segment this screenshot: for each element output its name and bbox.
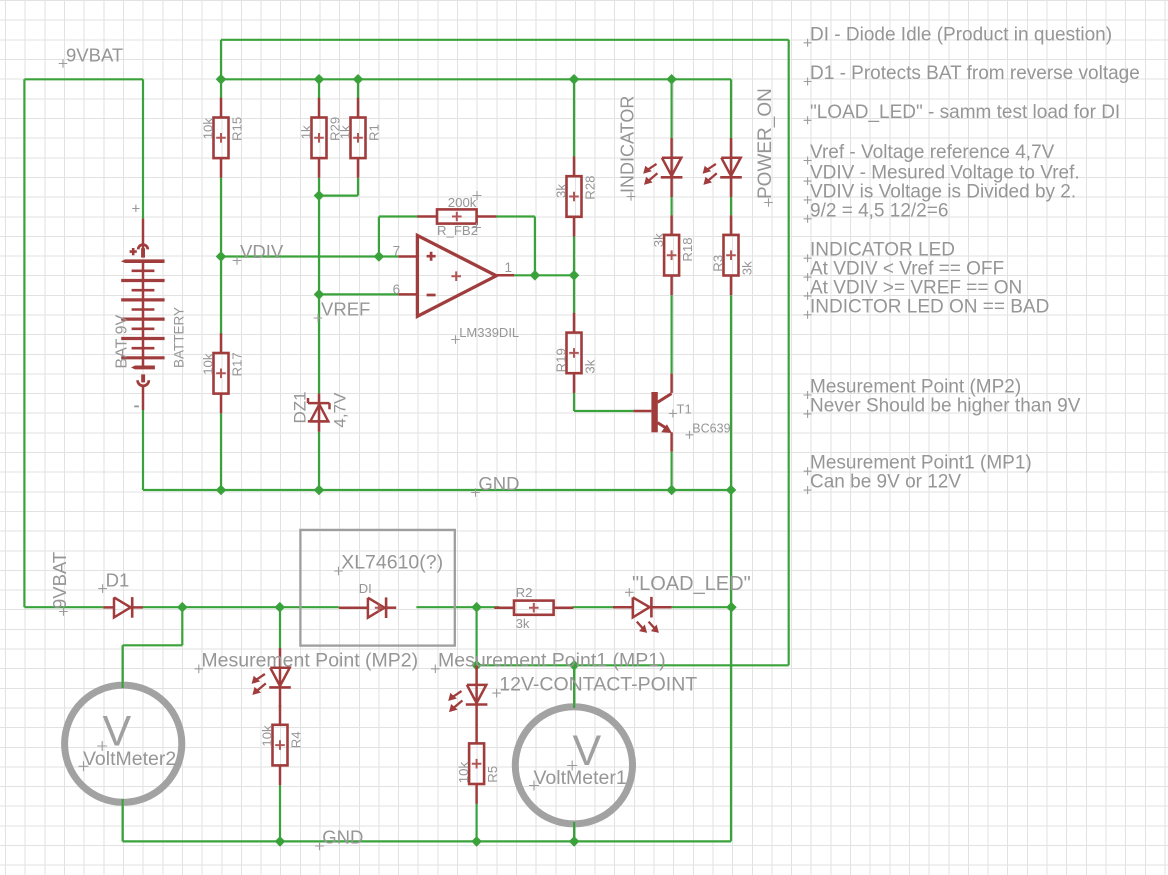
svg-text:R19: R19 — [553, 348, 568, 372]
svg-text:D1: D1 — [106, 569, 130, 590]
svg-text:+: + — [132, 201, 141, 218]
svg-text:LM339DIL: LM339DIL — [459, 325, 519, 340]
svg-text:3k: 3k — [740, 261, 755, 275]
svg-text:D1 - Protects BAT from reverse: D1 - Protects BAT from reverse voltage — [810, 63, 1140, 84]
svg-text:Can be 9V or 12V: Can be 9V or 12V — [810, 472, 961, 493]
svg-text:VDIV is Voltage is Divided by: VDIV is Voltage is Divided by 2. — [810, 181, 1076, 202]
svg-text:INDICATOR: INDICATOR — [618, 96, 638, 193]
svg-text:1k: 1k — [298, 125, 313, 139]
svg-text:9VBAT: 9VBAT — [66, 45, 123, 66]
svg-text:R1: R1 — [367, 124, 382, 141]
svg-text:BATTERY: BATTERY — [172, 307, 187, 368]
svg-text:3k: 3k — [583, 359, 598, 373]
svg-text:Never Should be higher than 9V: Never Should be higher than 9V — [810, 395, 1081, 416]
svg-text:7: 7 — [393, 243, 401, 258]
svg-text:DI - Diode Idle (Product in qu: DI - Diode Idle (Product in question) — [810, 24, 1112, 45]
svg-text:10k: 10k — [200, 353, 215, 375]
svg-text:1: 1 — [505, 260, 513, 275]
svg-text:Mesurement Point1 (MP1): Mesurement Point1 (MP1) — [810, 453, 1032, 474]
svg-text:3k: 3k — [651, 233, 666, 247]
svg-text:10k: 10k — [200, 118, 215, 140]
svg-text:9/2 = 4,5 12/2=6: 9/2 = 4,5 12/2=6 — [810, 200, 948, 221]
svg-text:R2: R2 — [516, 585, 533, 600]
svg-text:200k: 200k — [448, 195, 477, 210]
svg-text:GND: GND — [322, 827, 363, 848]
svg-text:DZ1: DZ1 — [291, 391, 310, 423]
svg-text:R18: R18 — [680, 237, 695, 261]
svg-text:Vref - Voltage reference 4,7V: Vref - Voltage reference 4,7V — [810, 142, 1055, 163]
svg-text:VREF: VREF — [321, 299, 370, 320]
svg-text:INDICATOR LED: INDICATOR LED — [810, 240, 955, 261]
svg-text:12V-CONTACT-POINT: 12V-CONTACT-POINT — [499, 674, 697, 696]
svg-text:R_FB2: R_FB2 — [437, 223, 478, 238]
svg-text:Mesurement Point1 (MP1): Mesurement Point1 (MP1) — [438, 649, 666, 671]
svg-text:POWER_ON: POWER_ON — [755, 88, 776, 199]
svg-text:Mesurement Point (MP2): Mesurement Point (MP2) — [810, 377, 1021, 398]
svg-text:Mesurement Point (MP2): Mesurement Point (MP2) — [201, 649, 418, 671]
svg-text:9VBAT: 9VBAT — [49, 552, 70, 609]
svg-text:At VDIV >= VREF == ON: At VDIV >= VREF == ON — [810, 277, 1022, 298]
svg-text:10k: 10k — [259, 725, 274, 747]
svg-text:R5: R5 — [485, 766, 500, 783]
svg-text:3k: 3k — [516, 616, 530, 631]
svg-text:VDIV: VDIV — [240, 241, 284, 262]
svg-text:"LOAD_LED" - samm test load fo: "LOAD_LED" - samm test load for DI — [810, 102, 1120, 123]
svg-text:T1: T1 — [677, 402, 692, 417]
svg-text:4,7V: 4,7V — [331, 392, 350, 428]
svg-text:VoltMeter2: VoltMeter2 — [83, 748, 176, 770]
svg-text:XL74610(?): XL74610(?) — [341, 552, 443, 574]
svg-text:R28: R28 — [583, 175, 598, 199]
svg-text:6: 6 — [393, 282, 401, 297]
svg-text:BAT 9V: BAT 9V — [114, 315, 131, 369]
svg-text:R17: R17 — [230, 352, 245, 376]
svg-text:VoltMeter1: VoltMeter1 — [534, 767, 627, 789]
svg-text:10k: 10k — [456, 762, 471, 784]
svg-text:BC639: BC639 — [692, 422, 730, 436]
svg-text:DI: DI — [359, 581, 372, 596]
svg-text:R15: R15 — [230, 117, 245, 141]
svg-text:R3: R3 — [710, 255, 725, 272]
svg-text:3k: 3k — [553, 184, 568, 198]
svg-text:1k: 1k — [337, 125, 352, 139]
svg-text:GND: GND — [478, 473, 519, 494]
svg-text:INDICTOR LED ON == BAD: INDICTOR LED ON == BAD — [810, 296, 1049, 317]
svg-text:"LOAD_LED": "LOAD_LED" — [632, 573, 751, 595]
svg-text:R4: R4 — [289, 731, 304, 748]
